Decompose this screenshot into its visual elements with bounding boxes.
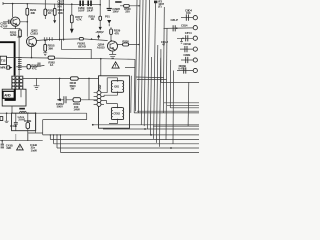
svg-text:AND: AND — [4, 94, 11, 98]
svg-text:10UF: 10UF — [78, 9, 85, 13]
svg-text:CF202: CF202 — [113, 113, 120, 116]
svg-text:R40B: R40B — [24, 119, 31, 123]
svg-text:C41B: C41B — [10, 124, 17, 128]
svg-text:100V: 100V — [112, 10, 118, 14]
svg-text:X201: X201 — [114, 86, 120, 89]
svg-text:470: 470 — [114, 31, 119, 35]
svg-text:1W: 1W — [70, 87, 74, 91]
svg-text:C82B: C82B — [183, 53, 190, 57]
svg-text:+5(R)V: +5(R)V — [95, 30, 104, 34]
svg-text:C81-P: C81-P — [171, 18, 179, 22]
svg-text:T12: T12 — [1, 59, 6, 63]
svg-text:BEAD: BEAD — [78, 44, 86, 48]
svg-text:C814: C814 — [181, 23, 188, 27]
svg-text:150: 150 — [186, 11, 191, 15]
svg-text:4.7UF: 4.7UF — [0, 24, 8, 28]
svg-text:A1015: A1015 — [97, 46, 105, 50]
svg-text:500V: 500V — [57, 105, 63, 109]
svg-text:1/xW: 1/xW — [31, 148, 38, 152]
svg-text:50V: 50V — [57, 4, 62, 8]
svg-text:MRU: MRU — [0, 66, 6, 70]
svg-text:220: 220 — [125, 10, 130, 14]
svg-text:CR1B: CR1B — [183, 42, 190, 46]
svg-text:390: 390 — [31, 11, 36, 15]
svg-text:P51: P51 — [105, 15, 110, 19]
svg-text:R230: R230 — [122, 40, 129, 44]
svg-text:C8Y4: C8Y4 — [185, 31, 192, 35]
svg-text:0.47U: 0.47U — [178, 67, 185, 71]
svg-text:10UF: 10UF — [87, 9, 94, 13]
svg-text:(F): (F) — [158, 4, 161, 8]
svg-text:BAN: BAN — [10, 33, 16, 37]
svg-text:C1815: C1815 — [30, 31, 38, 35]
svg-text:1/4W: 1/4W — [73, 108, 80, 112]
